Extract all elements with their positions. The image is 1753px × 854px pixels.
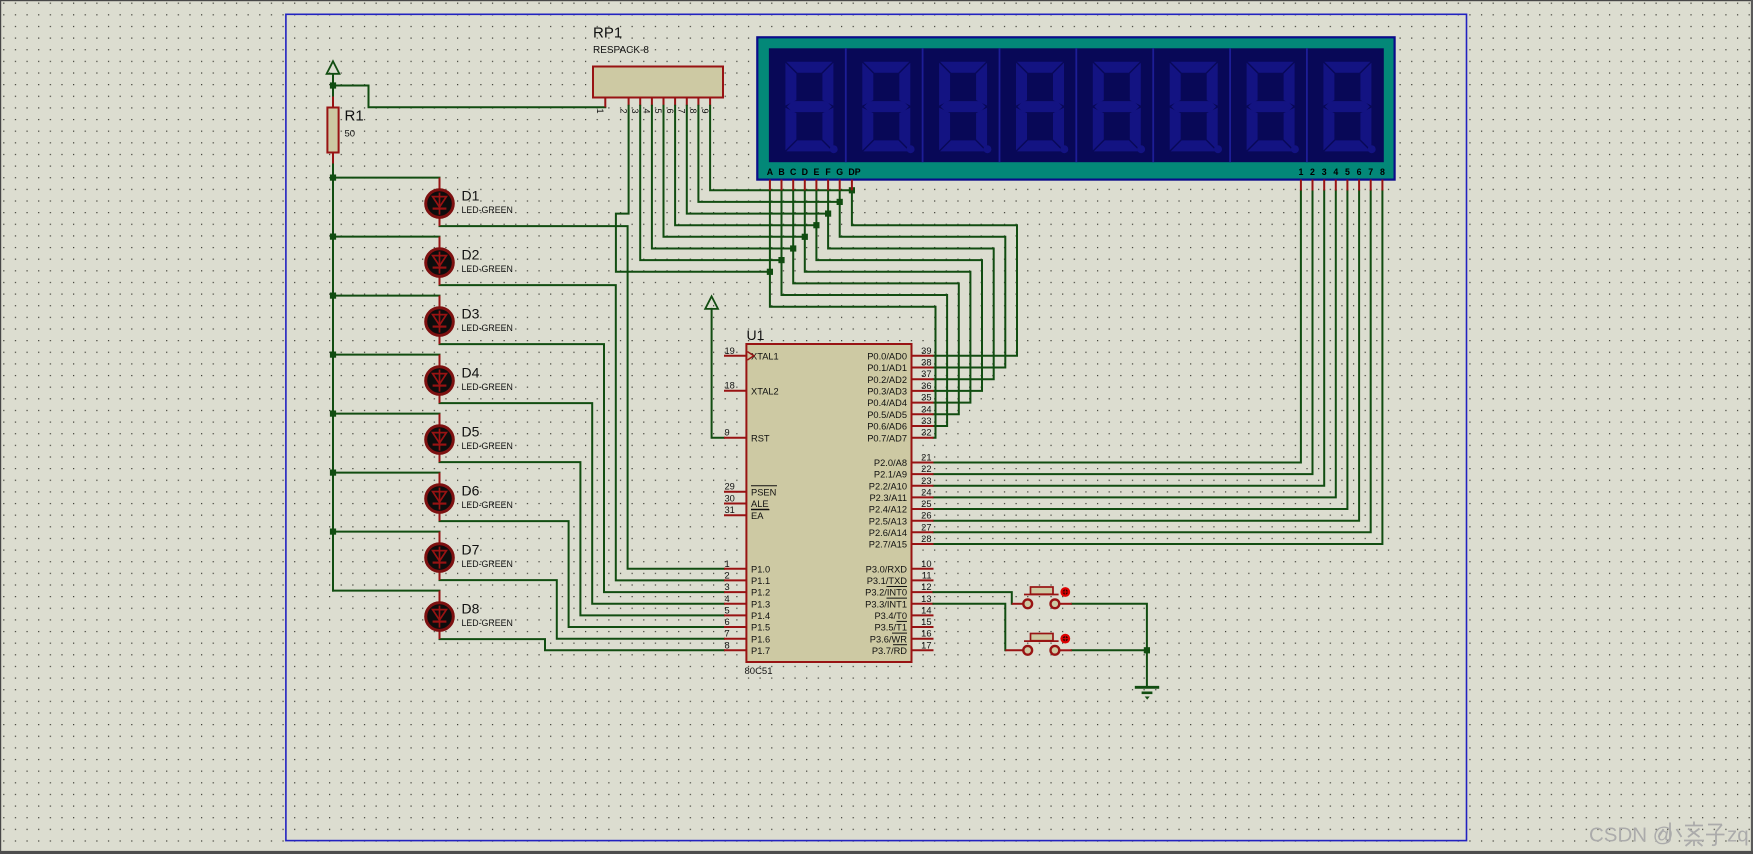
wire button1 to ground rail — [1072, 604, 1147, 651]
svg-text:XTAL1: XTAL1 — [751, 351, 779, 361]
svg-text:zq: zq — [1727, 824, 1749, 847]
svg-text:6: 6 — [725, 617, 730, 627]
svg-text:D: D — [802, 167, 808, 177]
junction node D — [802, 234, 808, 240]
svg-text:10: 10 — [921, 559, 931, 569]
svg-text:E: E — [813, 167, 819, 177]
svg-text:7: 7 — [1368, 167, 1373, 177]
wire rail to D8 — [333, 590, 440, 592]
junction node B — [778, 257, 784, 263]
svg-text:RP1: RP1 — [593, 25, 622, 42]
resistor R1 — [327, 97, 363, 164]
svg-text:9: 9 — [700, 109, 710, 114]
push button 1 — [1012, 587, 1072, 608]
svg-text:P0.1/AD1: P0.1/AD1 — [867, 363, 907, 373]
svg-text:6: 6 — [665, 109, 675, 114]
svg-text:P1.7: P1.7 — [751, 646, 770, 656]
svg-text:5: 5 — [653, 109, 663, 114]
svg-text:14: 14 — [921, 605, 931, 615]
svg-text:34: 34 — [921, 404, 931, 414]
wire digit pin 6 to P2.5 — [934, 191, 1360, 521]
svg-text:24: 24 — [921, 487, 931, 497]
wire D1 to P1.0 — [440, 226, 725, 569]
svg-text:1: 1 — [1298, 167, 1303, 177]
wire digit pin 3 to P2.2 — [934, 191, 1325, 486]
wire segment F to P0.2 — [828, 190, 994, 379]
svg-text:P1.0: P1.0 — [751, 564, 770, 574]
svg-text:39: 39 — [921, 346, 931, 356]
wire D3 to P1.2 — [440, 344, 725, 592]
svg-text:21: 21 — [921, 453, 931, 463]
LED D5 LED-GREEN — [426, 414, 513, 463]
wire rail to D6 — [333, 472, 440, 474]
wire button2 to ground rail — [1072, 649, 1147, 651]
svg-text:LED-GREEN: LED-GREEN — [462, 323, 513, 333]
wire RP1 pin5 to node D — [664, 106, 805, 237]
svg-text:7: 7 — [725, 629, 730, 639]
LED D8 LED-GREEN — [426, 591, 513, 640]
svg-text:D1: D1 — [462, 188, 480, 204]
svg-text:P2.0/A8: P2.0/A8 — [874, 458, 907, 468]
svg-text:P0.4/AD4: P0.4/AD4 — [867, 398, 907, 408]
svg-text:19: 19 — [725, 346, 735, 356]
wire RP1 pin2 to node A — [616, 106, 770, 272]
svg-text:8: 8 — [688, 109, 698, 114]
push button 2 — [1005, 634, 1072, 655]
svg-text:8: 8 — [1380, 167, 1385, 177]
junction rail D2 — [330, 234, 336, 240]
svg-text:16: 16 — [921, 629, 931, 639]
svg-text:35: 35 — [921, 393, 931, 403]
wire segment B to P0.6 — [782, 190, 948, 426]
svg-text:38: 38 — [921, 358, 931, 368]
wire digit pin 8 to P2.7 — [934, 191, 1383, 545]
svg-text:2: 2 — [618, 109, 628, 114]
LED D3 LED-GREEN — [426, 296, 513, 345]
svg-text:EA: EA — [751, 511, 764, 521]
svg-text:5: 5 — [1345, 167, 1350, 177]
svg-text:22: 22 — [921, 464, 931, 474]
svg-text:30: 30 — [725, 494, 735, 504]
svg-text:D6: D6 — [462, 483, 480, 499]
svg-text:4: 4 — [1333, 167, 1338, 177]
wire ground stem — [1146, 650, 1148, 686]
LED D4 LED-GREEN — [426, 355, 513, 404]
svg-text:P0.5/AD5: P0.5/AD5 — [867, 410, 907, 420]
svg-text:D5: D5 — [462, 424, 480, 440]
LED D6 LED-GREEN — [426, 473, 513, 521]
wire RP1 pin6 to node E — [675, 106, 816, 225]
junction rail D3 — [330, 293, 336, 299]
svg-text:27: 27 — [921, 522, 931, 532]
wire RP1 pin4 to node C — [652, 106, 793, 249]
svg-text:U1: U1 — [747, 327, 765, 343]
svg-text:A: A — [767, 167, 774, 177]
wire D2 to P1.1 — [440, 285, 725, 580]
svg-text:5: 5 — [725, 605, 730, 615]
wire digit pin 5 to P2.4 — [934, 191, 1348, 510]
wire RP1 pin9 to node DP — [710, 106, 852, 191]
svg-text:D2: D2 — [462, 247, 480, 263]
wire segment E to P0.3 — [816, 190, 982, 391]
wire power to RST — [712, 309, 724, 438]
junction VCC rail — [330, 82, 336, 88]
junction node E — [813, 222, 819, 228]
svg-text:13: 13 — [921, 594, 931, 604]
svg-text:4: 4 — [725, 594, 730, 604]
svg-text:LED-GREEN: LED-GREEN — [462, 382, 513, 392]
svg-text:LED-GREEN: LED-GREEN — [462, 559, 513, 569]
svg-text:XTAL2: XTAL2 — [751, 386, 779, 396]
svg-text:P3.7/RD: P3.7/RD — [872, 646, 907, 656]
svg-text:F: F — [825, 167, 831, 177]
svg-text:P3.0/RXD: P3.0/RXD — [866, 564, 908, 574]
svg-text:37: 37 — [921, 369, 931, 379]
svg-text:P0.2/AD2: P0.2/AD2 — [867, 375, 907, 385]
svg-text:LED-GREEN: LED-GREEN — [462, 264, 513, 274]
junction rail D1 — [330, 175, 336, 181]
power symbol (RST) — [705, 296, 718, 309]
svg-text:G: G — [836, 167, 843, 177]
svg-text:4: 4 — [642, 109, 652, 114]
svg-text:D8: D8 — [462, 601, 480, 617]
svg-text:29: 29 — [725, 482, 735, 492]
svg-text:2: 2 — [725, 570, 730, 580]
wire rail to D5 — [333, 413, 440, 415]
svg-text:LED-GREEN: LED-GREEN — [462, 500, 513, 510]
svg-text:CSDN @: CSDN @ — [1589, 824, 1674, 847]
junction node DP — [849, 187, 855, 193]
wire D5 to P1.4 — [440, 462, 725, 615]
svg-text:9: 9 — [725, 428, 730, 438]
junction rail D6 — [330, 470, 336, 476]
wire RP1 pin3 to node B — [640, 106, 781, 260]
svg-text:P3.2/INT0: P3.2/INT0 — [865, 588, 907, 598]
7-segment display module (8 digits) — [757, 37, 1394, 190]
wire segment C to P0.5 — [793, 190, 959, 414]
power symbol VCC (left) — [327, 61, 340, 96]
svg-text:80C51: 80C51 — [745, 666, 773, 677]
wire D7 to P1.6 — [440, 580, 725, 639]
junction node A — [767, 269, 773, 275]
svg-text:P0.0/AD0: P0.0/AD0 — [867, 351, 907, 361]
svg-text:26: 26 — [921, 511, 931, 521]
ground — [1135, 687, 1159, 699]
junction node G — [837, 199, 843, 205]
wire RP1 pin7 to node F — [687, 106, 828, 214]
svg-text:1: 1 — [725, 559, 730, 569]
svg-text:B: B — [778, 167, 784, 177]
svg-text:7: 7 — [677, 109, 687, 114]
junction ground rail — [1144, 647, 1150, 653]
svg-text:P1.5: P1.5 — [751, 623, 770, 633]
svg-text:P1.4: P1.4 — [751, 611, 770, 621]
svg-text:DP: DP — [848, 167, 860, 177]
svg-text:8: 8 — [725, 640, 730, 650]
junction rail D5 — [330, 411, 336, 417]
wire D4 to P1.3 — [440, 403, 725, 604]
svg-text:25: 25 — [921, 499, 931, 509]
svg-text:P3.6/WR: P3.6/WR — [870, 634, 907, 644]
junction rail D7 — [330, 529, 336, 535]
svg-text:ALE: ALE — [751, 499, 769, 509]
svg-text:P1.6: P1.6 — [751, 634, 770, 644]
svg-text:6: 6 — [1357, 167, 1362, 177]
svg-text:D4: D4 — [462, 365, 480, 381]
wire P3.3 to button2 — [934, 604, 1006, 651]
wire segment G to P0.1 — [840, 190, 1006, 367]
svg-text:LED-GREEN: LED-GREEN — [462, 205, 513, 215]
svg-text:P1.1: P1.1 — [751, 576, 770, 586]
svg-text:50: 50 — [345, 129, 356, 140]
svg-text:P2.5/A13: P2.5/A13 — [869, 516, 907, 526]
svg-text:D3: D3 — [462, 306, 480, 322]
wire VCC node to RP1 pin1 — [333, 86, 605, 108]
svg-text:11: 11 — [922, 570, 932, 580]
svg-text:LED-GREEN: LED-GREEN — [462, 618, 513, 628]
junction rail D4 — [330, 352, 336, 358]
LED D1 LED-GREEN — [426, 178, 513, 227]
svg-text:P2.4/A12: P2.4/A12 — [869, 505, 907, 515]
junction node C — [790, 245, 796, 251]
wire rail to D2 — [333, 236, 440, 238]
svg-text:32: 32 — [921, 428, 931, 438]
wire digit pin 4 to P2.3 — [934, 191, 1336, 498]
svg-text:3: 3 — [1322, 167, 1327, 177]
wire rail to D3 — [333, 295, 440, 297]
svg-text:23: 23 — [921, 476, 931, 486]
svg-text:PSEN: PSEN — [751, 487, 776, 497]
junction node F — [825, 211, 831, 217]
wire segment A to P0.7 — [770, 190, 936, 437]
svg-text:2: 2 — [1310, 167, 1315, 177]
svg-text:P2.1/A9: P2.1/A9 — [874, 470, 907, 480]
wire segment DP to P0.0 — [852, 190, 1017, 355]
wire RP1 pin8 to node G — [698, 106, 839, 202]
svg-text:31: 31 — [725, 505, 735, 515]
svg-text:P2.6/A14: P2.6/A14 — [869, 528, 907, 538]
wire digit pin 7 to P2.6 — [934, 191, 1371, 533]
svg-text:28: 28 — [921, 534, 931, 544]
svg-text:12: 12 — [921, 582, 931, 592]
svg-text:P3.1/TXD: P3.1/TXD — [867, 576, 908, 586]
wire rail below R1 to D8 row — [332, 163, 334, 591]
svg-text:15: 15 — [921, 617, 931, 627]
svg-text:P3.3/INT1: P3.3/INT1 — [865, 599, 907, 609]
svg-text:P0.7/AD7: P0.7/AD7 — [867, 433, 907, 443]
svg-text:P2.3/A11: P2.3/A11 — [869, 493, 907, 503]
resistor pack RP1 RESPACK-8 — [593, 25, 723, 114]
watermark — [1589, 822, 1749, 847]
svg-text:P3.4/T0: P3.4/T0 — [874, 611, 907, 621]
wire digit pin 2 to P2.1 — [934, 191, 1313, 475]
svg-text:R1: R1 — [345, 108, 364, 125]
svg-text:18: 18 — [725, 381, 735, 391]
svg-text:P3.5/T1: P3.5/T1 — [874, 623, 907, 633]
svg-text:RESPACK-8: RESPACK-8 — [593, 45, 649, 56]
svg-text:3: 3 — [725, 582, 730, 592]
wire rail to D4 — [333, 354, 440, 356]
microcontroller U1 80C51 — [724, 327, 934, 677]
wire segment D to P0.4 — [805, 190, 971, 402]
svg-text:36: 36 — [921, 381, 931, 391]
LED D2 LED-GREEN — [426, 237, 513, 286]
wire rail to D7 — [333, 531, 440, 533]
svg-text:3: 3 — [630, 109, 640, 114]
LED D7 LED-GREEN — [426, 532, 513, 581]
svg-text:LED-GREEN: LED-GREEN — [462, 441, 513, 451]
svg-text:P2.2/A10: P2.2/A10 — [869, 481, 907, 491]
wire digit pin 1 to P2.0 — [934, 191, 1301, 463]
wire rail to D1 — [333, 177, 440, 179]
svg-text:D7: D7 — [462, 542, 480, 558]
wire D8 to P1.7 — [440, 639, 725, 650]
svg-text:P2.7/A15: P2.7/A15 — [869, 540, 907, 550]
wire P3.2 to button1 — [934, 592, 1012, 604]
svg-text:RST: RST — [751, 433, 770, 443]
svg-text:33: 33 — [921, 416, 931, 426]
svg-text:17: 17 — [921, 640, 931, 650]
svg-text:P0.6/AD6: P0.6/AD6 — [867, 422, 907, 432]
svg-text:1: 1 — [595, 109, 605, 114]
svg-text:P0.3/AD3: P0.3/AD3 — [867, 387, 907, 397]
svg-text:P1.3: P1.3 — [751, 599, 770, 609]
wire D6 to P1.5 — [440, 521, 725, 627]
svg-text:C: C — [790, 167, 797, 177]
svg-text:P1.2: P1.2 — [751, 588, 770, 598]
